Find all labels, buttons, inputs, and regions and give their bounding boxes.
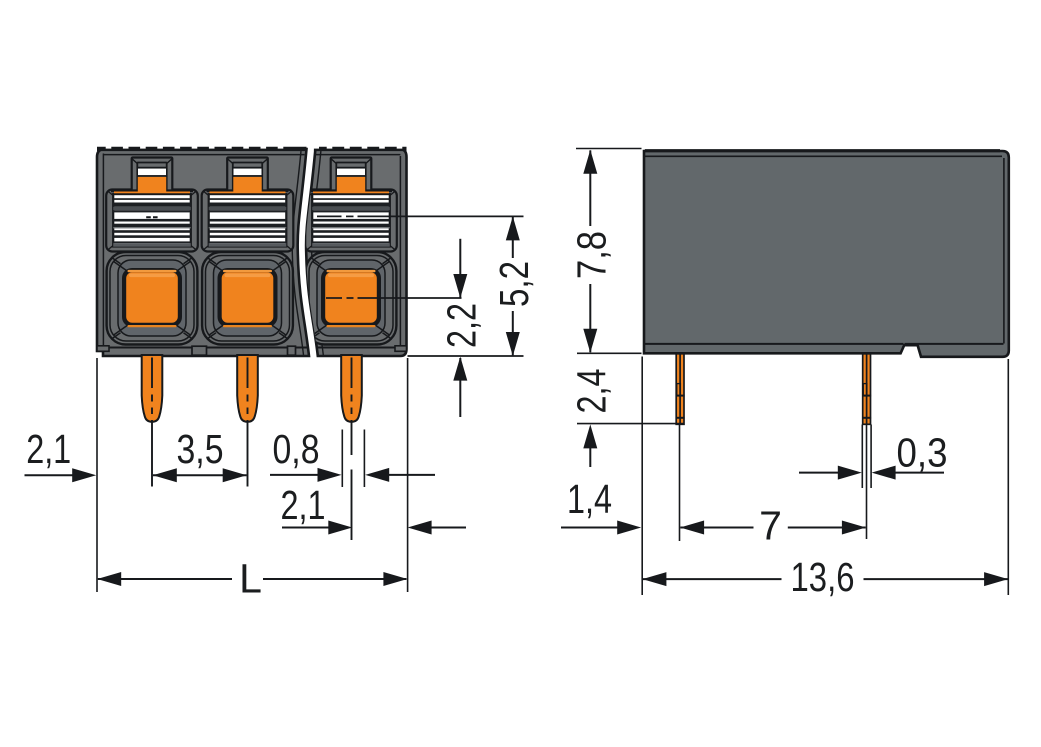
pin 1 bbox=[142, 355, 163, 422]
dimension 13,6 bbox=[643, 578, 782, 580]
side extension lines bbox=[576, 148, 642, 150]
dimension 2,1 (left offset) bbox=[25, 474, 75, 476]
extension lines front bbox=[96, 358, 98, 592]
front body: inner edge lines bbox=[102, 154, 104, 348]
svg-text:7: 7 bbox=[759, 503, 782, 549]
front body: bottom lip line and tabs bbox=[99, 347, 308, 349]
leader line A (clamping window) bbox=[317, 215, 342, 217]
dimension 3,5 (pin pitch) bbox=[153, 474, 247, 476]
dimension 2,1 (pin3 to edge) bbox=[282, 527, 329, 529]
svg-text:0,3: 0,3 bbox=[897, 430, 948, 476]
side body inner lines bbox=[645, 343, 904, 345]
dimension 0,8 (pin tip width) bbox=[270, 474, 318, 476]
front body: top edge thick band with white tick notches bbox=[97, 147, 307, 151]
svg-text:2,1: 2,1 bbox=[281, 482, 326, 528]
dimension 1,4 bbox=[561, 527, 619, 529]
svg-text:3,5: 3,5 bbox=[177, 426, 224, 472]
pole 1 details bbox=[106, 158, 198, 345]
front view: body right section (pole 3) bbox=[306, 149, 406, 356]
side pin 2 bbox=[863, 354, 871, 425]
svg-text:5,2: 5,2 bbox=[491, 261, 537, 307]
dimension 2,4 bbox=[589, 446, 591, 467]
side pin 1 bbox=[676, 354, 684, 425]
svg-text:1,4: 1,4 bbox=[567, 476, 612, 522]
dimension 0,3 bbox=[799, 472, 840, 474]
svg-text:2,4: 2,4 bbox=[568, 369, 614, 414]
svg-text:7,8: 7,8 bbox=[568, 231, 614, 279]
leader line B (push-button center) bbox=[326, 297, 342, 299]
leader line C (body bottom) bbox=[408, 355, 524, 357]
pole 3 details (clipped by break) bbox=[305, 158, 397, 345]
svg-text:2,2: 2,2 bbox=[438, 303, 484, 348]
dimension L (overall length) bbox=[98, 578, 232, 580]
front view: body left section (poles 1-2) bbox=[97, 149, 309, 356]
svg-text:2,1: 2,1 bbox=[26, 426, 71, 472]
dimension 5,2 (vertical) bbox=[512, 217, 514, 258]
pin 3 bbox=[341, 355, 362, 422]
dimension 2,2 (vertical) bbox=[459, 239, 461, 298]
svg-text:13,6: 13,6 bbox=[791, 554, 855, 600]
svg-text:L: L bbox=[239, 556, 262, 602]
side view: body bbox=[644, 151, 1009, 357]
break edge inner lines bbox=[292, 151, 303, 355]
pin 2 bbox=[237, 355, 258, 422]
dimension 7,8 bbox=[589, 150, 591, 226]
svg-text:0,8: 0,8 bbox=[273, 426, 320, 472]
dimension 7 bbox=[680, 527, 753, 529]
pole 2 details bbox=[202, 158, 294, 345]
